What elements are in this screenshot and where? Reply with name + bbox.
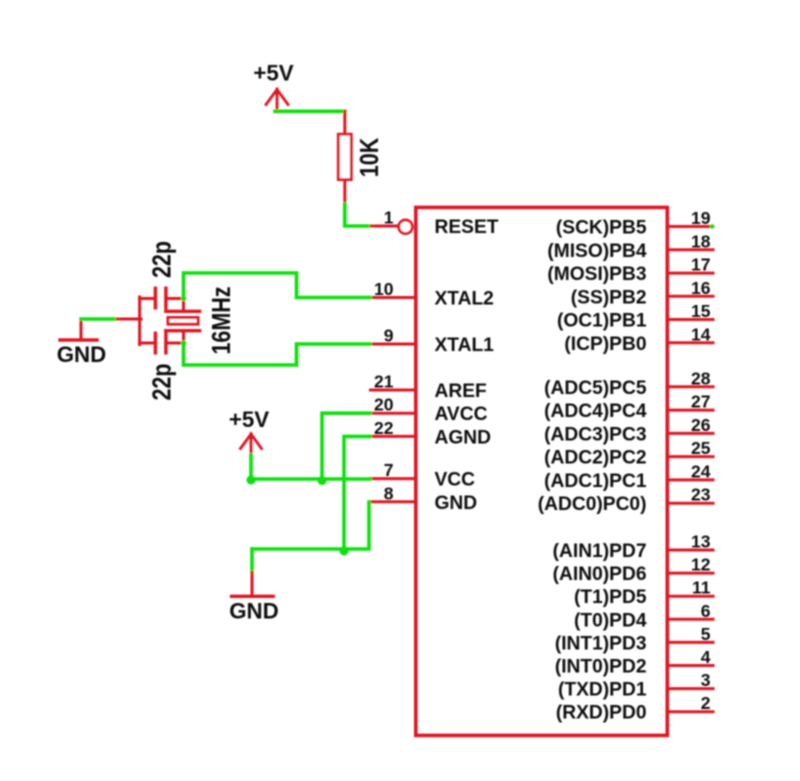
pin 18 line ((MISO)PB4): [669, 248, 713, 251]
wire GND drop red: [251, 572, 254, 595]
wire VCC rail: [251, 477, 370, 481]
svg-text:XTAL2: XTAL2: [435, 289, 494, 310]
svg-text:11: 11: [692, 578, 711, 598]
IC U1 microcontroller body: [416, 207, 668, 735]
svg-text:VCC: VCC: [435, 470, 476, 491]
wire R1 to RESET: [345, 204, 372, 226]
pin 16 line ((SS)PB2): [669, 295, 713, 298]
svg-text:(RXD)PD0: (RXD)PD0: [556, 703, 647, 724]
svg-text:3: 3: [701, 670, 711, 690]
svg-text:(AIN1)PD7: (AIN1)PD7: [553, 541, 647, 562]
wire AGND drop: [344, 436, 370, 549]
svg-text:27: 27: [691, 392, 710, 412]
pin 10 line (XTAL2): [371, 296, 415, 299]
svg-text:22p: 22p: [148, 363, 178, 400]
crystal X1 16MHz: [166, 286, 237, 354]
capacitor C1 22p (top): [140, 241, 184, 308]
svg-text:14: 14: [691, 324, 711, 344]
wire R1 bottom lead: [343, 180, 346, 205]
pin 3 line ((TXD)PD1): [669, 687, 713, 690]
svg-text:(OC1)PB1: (OC1)PB1: [557, 311, 647, 332]
svg-text:(ICP)PB0: (ICP)PB0: [564, 334, 646, 355]
pin 23 line ((ADC0)PC0)): [669, 502, 713, 505]
svg-text:GND: GND: [57, 342, 107, 367]
svg-text:18: 18: [691, 231, 711, 251]
wire capacitor common vertical: [138, 297, 141, 345]
pin 7 line (VCC): [371, 477, 415, 480]
node AVCC tee junction: [318, 476, 327, 485]
svg-text:5: 5: [701, 624, 711, 644]
svg-text:10: 10: [374, 279, 394, 299]
pin 19 line ((SCK)PB5): [669, 225, 713, 228]
svg-text:22: 22: [374, 418, 394, 438]
svg-text:15: 15: [691, 301, 711, 321]
svg-text:(AIN0)PD6: (AIN0)PD6: [553, 564, 647, 585]
svg-text:(MOSI)PB3: (MOSI)PB3: [547, 264, 646, 285]
pin 1 RESET bubble: [399, 220, 413, 234]
svg-text:AREF: AREF: [435, 381, 488, 402]
pin 28 line ((ADC5)PC5): [669, 385, 713, 388]
svg-text:7: 7: [384, 460, 394, 480]
resistor R1 10K: [338, 134, 384, 179]
svg-text:(INT0)PD2: (INT0)PD2: [555, 657, 647, 678]
svg-text:XTAL1: XTAL1: [435, 335, 495, 356]
svg-text:8: 8: [384, 483, 394, 503]
power symbol +5V (middle): [229, 407, 269, 456]
pin 22 line (AGND): [371, 435, 415, 438]
svg-text:RESET: RESET: [435, 217, 499, 238]
pin 15 line ((OC1)PB1): [669, 318, 713, 321]
capacitor C2 22p (bottom): [140, 333, 184, 400]
svg-text:10K: 10K: [355, 137, 385, 177]
svg-text:(ADC3)PC3: (ADC3)PC3: [544, 424, 646, 445]
pin 13 line ((AIN1)PD7): [669, 549, 713, 552]
svg-text:(ADC4)PC4: (ADC4)PC4: [544, 401, 647, 422]
svg-text:16: 16: [691, 278, 711, 298]
pin 11 line ((T1)PD5): [669, 595, 713, 598]
svg-text:(ADC1)PC1: (ADC1)PC1: [544, 471, 647, 492]
pin 12 line ((AIN0)PD6): [669, 572, 713, 575]
svg-text:6: 6: [701, 601, 711, 621]
wire +5V to R1 top: [275, 110, 345, 114]
node crystal top junction: [181, 296, 186, 301]
svg-text:(MISO)PB4: (MISO)PB4: [547, 241, 646, 262]
ground (crystal): [57, 319, 107, 367]
svg-text:(T1)PD5: (T1)PD5: [574, 587, 647, 608]
svg-text:(ADC0)PC0): (ADC0)PC0): [538, 494, 647, 515]
pin 14 line ((ICP)PB0): [669, 341, 713, 344]
wire GND to capacitors: [81, 317, 118, 321]
svg-text:26: 26: [691, 415, 711, 435]
pin 9 line (XTAL1): [371, 343, 415, 346]
pin 21 line (AREF): [371, 389, 415, 392]
svg-text:9: 9: [384, 326, 394, 346]
svg-text:AGND: AGND: [435, 427, 492, 448]
svg-text:(TXD)PD1: (TXD)PD1: [558, 680, 647, 701]
svg-text:1: 1: [384, 208, 394, 228]
svg-text:(T0)PD4: (T0)PD4: [574, 610, 647, 631]
wire crystal bottom to XTAL1: [184, 343, 371, 365]
svg-text:4: 4: [701, 647, 711, 667]
wire GND red segment: [117, 318, 141, 321]
pin 5 line ((INT1)PD3): [669, 641, 713, 644]
svg-text:GND: GND: [435, 493, 478, 514]
pin 4 line ((INT0)PD2): [669, 664, 713, 667]
pin 26 line ((ADC3)PC3): [669, 432, 713, 435]
svg-text:23: 23: [691, 485, 711, 505]
svg-text:+5V: +5V: [229, 407, 269, 432]
svg-text:20: 20: [374, 395, 394, 415]
svg-text:AVCC: AVCC: [435, 404, 488, 425]
svg-text:12: 12: [691, 555, 711, 575]
pin 27 line ((ADC4)PC4): [669, 409, 713, 412]
wire GND drop green: [250, 549, 254, 573]
wire +5V drop: [249, 455, 253, 479]
svg-text:(ADC5)PC5: (ADC5)PC5: [544, 378, 647, 399]
node GND tee junction: [340, 547, 349, 556]
pin 25 line ((ADC2)PC2): [669, 455, 713, 458]
wire GND pin 8 drop: [252, 502, 369, 549]
svg-text:+5V: +5V: [253, 61, 293, 86]
pin 24 line ((ADC1)PC1): [669, 478, 713, 481]
svg-text:24: 24: [691, 461, 711, 481]
svg-text:22p: 22p: [148, 241, 178, 278]
pin 6 line ((T0)PD4): [669, 618, 713, 621]
svg-text:16MHz: 16MHz: [207, 286, 237, 354]
svg-text:28: 28: [691, 368, 711, 388]
ground (power): [229, 596, 279, 623]
svg-text:(ADC2)PC2: (ADC2)PC2: [544, 448, 646, 469]
pin 2 line ((RXD)PD0): [669, 710, 713, 713]
svg-text:21: 21: [374, 372, 394, 392]
svg-text:(SCK)PB5: (SCK)PB5: [556, 218, 647, 239]
svg-text:(INT1)PD3: (INT1)PD3: [555, 633, 647, 654]
svg-text:2: 2: [701, 693, 711, 713]
svg-text:(SS)PB2: (SS)PB2: [571, 287, 647, 308]
svg-text:25: 25: [691, 438, 711, 458]
svg-text:17: 17: [691, 255, 710, 275]
node VCC corner junction: [247, 476, 256, 485]
svg-text:GND: GND: [229, 599, 279, 624]
node crystal bottom junction: [181, 340, 186, 345]
power symbol +5V (top): [253, 61, 293, 113]
pin 8 line (GND): [371, 500, 415, 503]
pin 20 line (AVCC): [371, 412, 415, 415]
wire crystal top to XTAL2: [184, 273, 371, 299]
wire RESET stub: [371, 225, 399, 228]
wire R1 top lead: [343, 111, 346, 134]
wire AVCC riser: [322, 413, 370, 479]
pin 17 line ((MOSI)PB3): [669, 272, 713, 275]
node artifact at pin 19: [710, 224, 714, 228]
svg-text:19: 19: [691, 208, 711, 228]
svg-text:13: 13: [691, 532, 711, 552]
